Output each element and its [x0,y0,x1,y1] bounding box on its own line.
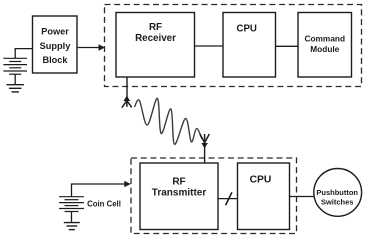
antenna (receiver) [122,101,132,108]
pushbutton switches [314,169,362,217]
svg-text:RF: RF [172,177,185,188]
battery B2 (coin cell) [59,197,84,212]
receiver unit dashed enclosure [105,5,362,87]
power supply block [33,16,78,73]
svg-text:Switches: Switches [321,197,354,206]
wire RF receiver to CPU [195,45,224,47]
wire power supply block to receiver unit (arrow) [77,47,99,49]
wire CPU to pushbutton switches [290,196,314,198]
svg-text:CPU: CPU [236,23,256,34]
svg-text:Receiver: Receiver [135,33,176,44]
wire battery B1 to ground [14,74,16,85]
bus slash [226,192,232,205]
transmitter unit dashed enclosure [131,158,297,234]
wire RF receiver to antenna [126,77,128,98]
svg-text:RF: RF [149,22,162,33]
antenna (transmitter) [200,134,209,143]
svg-text:CPU: CPU [250,175,272,186]
wire coin cell to transmitter unit (arrow) [72,184,126,197]
battery B1 (power supply battery) [3,58,27,74]
svg-text:Command: Command [305,34,346,44]
svg-text:Module: Module [310,44,339,54]
svg-text:Block: Block [42,55,68,65]
svg-text:Transmitter: Transmitter [152,188,207,199]
command module block [298,13,352,78]
svg-text:Power: Power [41,27,69,37]
ground (coin cell) [64,223,80,230]
RF transmitter block [140,163,218,230]
wire CPU to command module [276,45,299,47]
CPU block (receiver) [223,13,276,78]
ground (power supply) [7,85,24,92]
RF wave squiggle [135,98,203,144]
svg-text:Coin Cell: Coin Cell [87,200,121,209]
wire antenna to RF transmitter [204,144,206,164]
wire RF transmitter to CPU (bus) [218,198,238,200]
wire battery B1 to power supply block [15,49,32,59]
wire coin cell to ground [71,212,73,223]
svg-text:Supply: Supply [40,41,72,51]
RF receiver block [116,13,195,78]
svg-text:Pushbutton: Pushbutton [316,188,358,197]
CPU block (transmitter) [238,163,290,230]
